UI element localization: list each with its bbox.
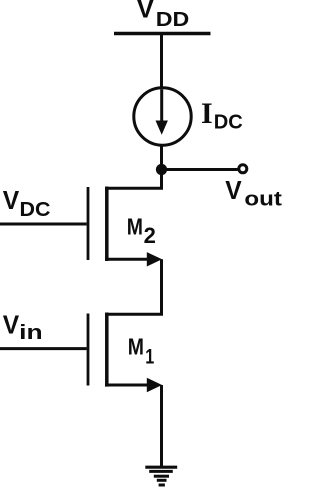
svg-text:in: in xyxy=(19,322,43,344)
svg-text:V: V xyxy=(137,0,155,23)
svg-text:V: V xyxy=(3,185,20,215)
svg-text:2: 2 xyxy=(144,223,156,248)
svg-text:DC: DC xyxy=(20,199,51,221)
svg-text:V: V xyxy=(3,310,20,340)
svg-text:I: I xyxy=(201,97,213,130)
svg-text:out: out xyxy=(244,188,282,211)
svg-text:DC: DC xyxy=(214,111,243,133)
svg-text:M: M xyxy=(128,334,144,360)
svg-text:1: 1 xyxy=(145,345,154,369)
svg-text:V: V xyxy=(225,175,242,205)
svg-text:M: M xyxy=(127,213,143,239)
svg-text:DD: DD xyxy=(156,9,190,31)
